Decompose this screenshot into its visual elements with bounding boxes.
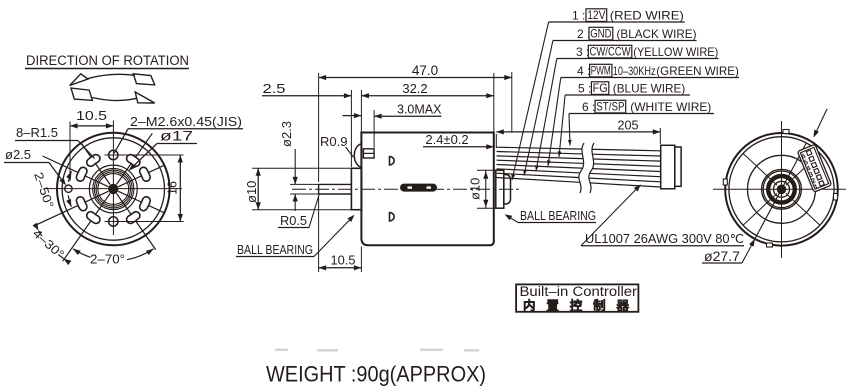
wire line 8	[497, 178, 661, 188]
screw hole	[109, 150, 118, 159]
slot 155	[80, 201, 83, 207]
svg-text:ST/SP: ST/SP	[596, 100, 624, 114]
svg-text:2.4±0.2: 2.4±0.2	[425, 132, 468, 147]
svg-text:10–30KHz: 10–30KHz	[613, 64, 656, 78]
spoke 25	[118, 191, 164, 213]
rear mid circle	[748, 155, 816, 223]
boss ring r17.2	[96, 172, 130, 206]
ext line body right	[493, 73, 495, 132]
svg-text:8–R1.5: 8–R1.5	[16, 125, 58, 140]
svg-text:6 :: 6 :	[582, 100, 595, 114]
svg-text:(WHITE WIRE): (WHITE WIRE)	[630, 100, 711, 114]
slot 335	[144, 171, 147, 177]
svg-text:1 :: 1 :	[572, 9, 585, 23]
50deg arc upper	[68, 171, 71, 182]
svg-text:FG: FG	[593, 81, 608, 95]
spoke 305	[117, 133, 153, 184]
spoke 235	[81, 143, 110, 185]
slot 205	[80, 171, 83, 177]
ghost marks	[275, 349, 479, 352]
rim tab	[783, 130, 789, 134]
wire line 7	[497, 173, 661, 182]
ext line shaft tip	[318, 73, 320, 182]
title underline	[25, 68, 189, 70]
shaft bottom	[319, 193, 352, 195]
boss ring r23.9	[89, 165, 137, 213]
break curve left	[579, 143, 584, 193]
ext line bushing left	[350, 90, 352, 167]
rotation arrow upper arc	[88, 74, 135, 78]
wire line 3	[497, 156, 661, 161]
motor body	[361, 133, 493, 246]
svg-text:BALL BEARING: BALL BEARING	[520, 209, 596, 223]
rear inner circle	[729, 137, 834, 242]
wire leader 1	[512, 22, 549, 180]
svg-text:10.5: 10.5	[331, 253, 356, 268]
svg-text:12V: 12V	[587, 8, 605, 22]
svg-text:16: 16	[166, 181, 180, 195]
rear dark annulus	[768, 176, 795, 203]
svg-text:CW/CCW: CW/CCW	[590, 45, 632, 59]
rear connector leader	[814, 109, 827, 136]
wire line 5	[497, 165, 661, 172]
rear spoke -43	[786, 153, 820, 185]
cable break gap	[579, 143, 594, 193]
wire line 4	[497, 160, 661, 166]
hole 2.5 left	[65, 185, 72, 192]
svg-text:WEIGHT :90g(APPROX): WEIGHT :90g(APPROX)	[266, 362, 486, 387]
svg-text:ø17: ø17	[160, 128, 193, 144]
svg-text:ø10: ø10	[244, 181, 259, 203]
rear hub	[777, 185, 787, 195]
wire line 2	[497, 152, 661, 157]
svg-text:(BLUE WIRE): (BLUE WIRE)	[613, 82, 686, 96]
svg-text:R0.5: R0.5	[280, 213, 307, 228]
svg-text:10.5: 10.5	[76, 108, 107, 123]
svg-text:(YELLOW WIRE): (YELLOW WIRE)	[633, 45, 718, 59]
svg-text:(BLACK WIRE): (BLACK WIRE)	[617, 27, 697, 41]
rear spoke 137	[743, 193, 777, 225]
svg-text:GND: GND	[590, 27, 612, 41]
ext line tab	[373, 110, 375, 148]
screw hole	[109, 217, 118, 226]
vent D bottom	[390, 213, 395, 221]
svg-text:47.0: 47.0	[412, 63, 438, 78]
rear spoke 43	[786, 193, 820, 225]
rear connector	[797, 144, 831, 192]
vent D top	[390, 157, 395, 165]
svg-text:R0.9: R0.9	[320, 134, 347, 149]
rear ring b	[763, 171, 800, 208]
front inner circle	[62, 138, 164, 240]
rear v centerline	[781, 121, 783, 258]
front outer circle	[57, 133, 170, 246]
svg-text:3.0MAX: 3.0MAX	[397, 103, 442, 117]
shaft end	[318, 184, 320, 194]
side centerline	[292, 188, 520, 190]
rotation arrow lower arc	[92, 98, 137, 101]
svg-text:2.5: 2.5	[263, 81, 286, 96]
svg-text:2 :: 2 :	[577, 27, 590, 41]
boss ring r20.6	[93, 168, 134, 209]
shaft hub	[108, 184, 118, 194]
break curve right	[589, 143, 594, 193]
rim tab	[723, 179, 727, 185]
svg-text:ø2.5: ø2.5	[5, 147, 31, 162]
rim tab	[767, 243, 773, 247]
slot 305	[131, 159, 137, 163]
front bushing	[351, 168, 361, 209]
wire leader 6	[569, 114, 570, 146]
rear boss	[496, 170, 504, 208]
slot 55	[131, 216, 137, 220]
spoke 155	[34, 191, 109, 226]
shaft top	[319, 183, 352, 185]
spoke 55	[117, 194, 156, 250]
svg-text:(GREEN WIRE): (GREEN WIRE)	[656, 64, 739, 78]
boss ring r15.4	[98, 174, 129, 205]
svg-text:ø2.3: ø2.3	[279, 121, 294, 147]
svg-text:205: 205	[618, 118, 639, 133]
spoke 125	[63, 194, 110, 262]
R0.9 bump	[354, 144, 361, 167]
30deg arc stub a	[58, 255, 63, 259]
rotation arrow upper tail	[133, 74, 154, 85]
wire leader 2	[524, 41, 553, 176]
top tab	[363, 149, 374, 158]
connector body	[675, 147, 681, 186]
rear outer circle	[725, 133, 838, 246]
70deg arc right	[127, 249, 154, 260]
svg-text:32.2: 32.2	[402, 81, 427, 96]
boss ring r18.9	[94, 170, 132, 208]
spoke 335	[118, 165, 164, 187]
rear ring a	[762, 169, 802, 209]
svg-text:4 :: 4 :	[577, 64, 590, 78]
50deg arc lower	[68, 195, 71, 207]
center slot	[400, 184, 437, 192]
rotation arrow lower head	[135, 92, 155, 103]
70deg arc left	[73, 249, 91, 258]
svg-text:(RED WIRE): (RED WIRE)	[610, 9, 684, 23]
front view horizontal centerline	[45, 188, 182, 190]
rear ring c	[774, 181, 790, 197]
svg-text:2–70°: 2–70°	[90, 253, 125, 267]
wire leader 4	[548, 78, 561, 167]
wire line 6	[497, 169, 661, 177]
rotation arrow upper head	[70, 74, 88, 86]
30deg arc stub b	[39, 231, 43, 237]
shaft extension lines	[290, 183, 319, 185]
wire line 1	[497, 147, 661, 151]
svg-text:Built–in Controller: Built–in Controller	[520, 284, 638, 299]
svg-text:BALL BEARING: BALL BEARING	[237, 243, 313, 257]
ext line body front	[360, 90, 362, 132]
slot 125	[91, 216, 97, 220]
connector flange	[661, 145, 675, 189]
dia27.7 leader	[742, 144, 806, 264]
builtin controller box	[516, 284, 638, 311]
slot 25	[144, 201, 147, 207]
svg-text:ø27.7: ø27.7	[704, 249, 740, 264]
ext line 47 right	[511, 72, 513, 133]
wire leader 5	[559, 95, 565, 157]
wire leader 3	[536, 59, 557, 172]
svg-text:5 :: 5 :	[578, 82, 591, 96]
spoke 205	[43, 156, 109, 187]
svg-text:ø10: ø10	[468, 178, 483, 200]
rim tab	[834, 194, 838, 201]
front view vertical centerline	[112, 121, 114, 236]
rear h centerline	[713, 188, 846, 190]
slot 235	[91, 159, 97, 163]
svg-text:3 :: 3 :	[576, 45, 589, 59]
svg-text:UL1007 26AWG 300V 80℃: UL1007 26AWG 300V 80℃	[585, 232, 744, 246]
svg-text:PWM: PWM	[591, 64, 611, 78]
rotation arrow lower tail	[71, 88, 92, 100]
rear spoke -137	[743, 153, 777, 185]
rear bearing cap	[504, 175, 511, 205]
svg-text:DIRECTION OF ROTATION: DIRECTION OF ROTATION	[26, 53, 189, 68]
